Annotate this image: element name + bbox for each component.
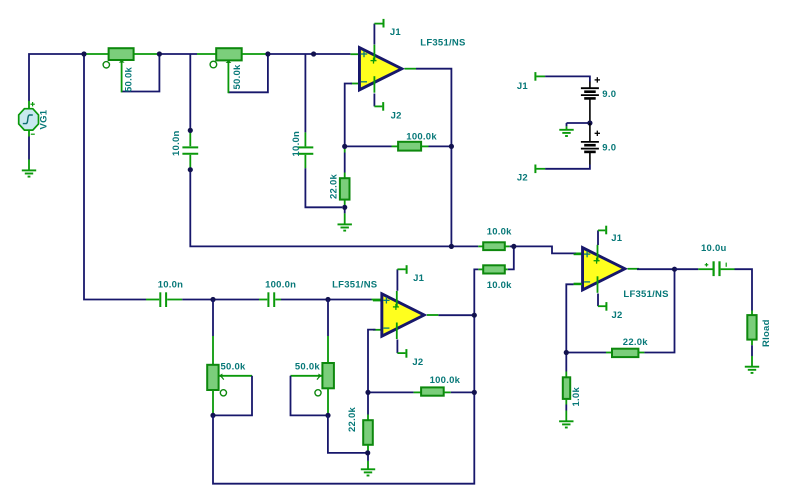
svg-text:J2: J2 <box>517 172 528 183</box>
svg-text:10.0k: 10.0k <box>487 227 512 238</box>
svg-text:J1: J1 <box>390 27 402 38</box>
svg-text:Rload: Rload <box>761 319 772 347</box>
svg-text:LF351/NS: LF351/NS <box>332 279 377 290</box>
svg-text:J1: J1 <box>413 273 425 284</box>
svg-text:100.0k: 100.0k <box>430 375 461 386</box>
svg-text:J1: J1 <box>517 81 529 92</box>
svg-text:9.0: 9.0 <box>602 89 616 100</box>
svg-text:J2: J2 <box>412 357 423 368</box>
svg-text:9.0: 9.0 <box>602 143 616 154</box>
svg-text:LF351/NS: LF351/NS <box>420 37 465 48</box>
svg-text:10.0n: 10.0n <box>291 131 302 157</box>
svg-text:10.0k: 10.0k <box>487 280 512 291</box>
svg-text:50.0k: 50.0k <box>123 67 134 92</box>
svg-text:50.0k: 50.0k <box>232 64 243 89</box>
svg-text:10.0n: 10.0n <box>158 279 184 290</box>
svg-text:J2: J2 <box>391 110 402 121</box>
svg-text:VG1: VG1 <box>39 109 50 129</box>
svg-text:22.0k: 22.0k <box>347 407 358 432</box>
svg-text:50.0k: 50.0k <box>295 362 320 373</box>
svg-text:22.0k: 22.0k <box>623 337 648 348</box>
svg-text:22.0k: 22.0k <box>328 174 339 199</box>
svg-text:100.0k: 100.0k <box>406 132 437 143</box>
svg-text:J1: J1 <box>611 233 623 244</box>
svg-text:10.0u: 10.0u <box>701 243 727 254</box>
svg-text:1.0k: 1.0k <box>571 387 582 407</box>
svg-text:J2: J2 <box>612 310 623 321</box>
svg-text:50.0k: 50.0k <box>221 362 246 373</box>
svg-text:100.0n: 100.0n <box>265 279 296 290</box>
svg-text:LF351/NS: LF351/NS <box>623 289 668 300</box>
svg-text:10.0n: 10.0n <box>171 130 182 156</box>
